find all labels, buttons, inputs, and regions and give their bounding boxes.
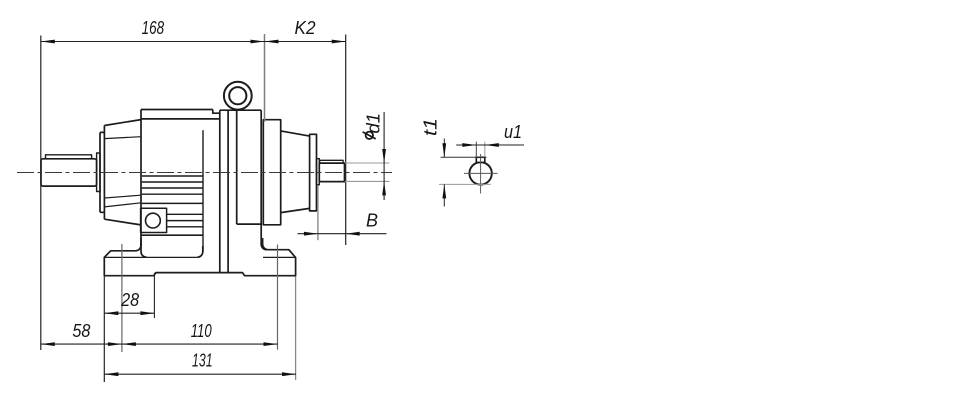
oil plug box: [141, 208, 167, 232]
central block top: [220, 109, 261, 111]
svg-text:K2: K2: [295, 18, 316, 38]
arrow 28 left: [104, 311, 118, 315]
arrow 110 left: [122, 342, 136, 346]
section h centerline: [464, 172, 498, 174]
extension line right bolt center: [277, 245, 279, 350]
output shaft: [319, 163, 344, 182]
dim line 131: [104, 373, 296, 375]
output collar: [317, 159, 320, 185]
arrow 131 left: [104, 372, 118, 376]
extension line base recess: [153, 273, 155, 318]
cone interior line top: [104, 137, 141, 139]
keyway ext right: [484, 142, 486, 158]
pocket fillet right (fins wall to pocket line): [197, 246, 203, 257]
eyebolt ring: [224, 82, 252, 110]
extension line shaft end: [345, 35, 347, 246]
centerline main view: [17, 172, 392, 174]
pocket fillet left (motor wall to pocket line): [141, 244, 147, 257]
fin 2: [142, 181, 203, 183]
fin 1: [142, 175, 203, 177]
t1 dim line bottom: [443, 184, 445, 206]
motor left wall: [140, 110, 142, 246]
central block notch bottom: [237, 223, 262, 225]
extension line base right edge: [295, 277, 297, 381]
dim line B: [298, 233, 387, 235]
motor fins end line: [202, 130, 204, 251]
arrow d1 bottom: [382, 181, 386, 195]
t1 bottom line: [439, 183, 491, 185]
central block inner line: [236, 110, 238, 224]
central pedestal right line: [227, 110, 229, 272]
svg-text:58: 58: [72, 321, 90, 341]
base back edge line right: [263, 256, 296, 258]
label od1 diameter symbol slash: [363, 132, 376, 139]
arrow 58 left: [41, 342, 55, 346]
central block left edge / pedestal: [219, 110, 221, 272]
arrow B right: [346, 232, 360, 236]
cone interior line mid2: [104, 203, 141, 207]
dim line 58: [41, 343, 122, 345]
extension line B left: [317, 186, 319, 240]
dim line K2: [265, 41, 346, 43]
dim line 28: [104, 312, 154, 314]
svg-text:168: 168: [142, 18, 165, 38]
section key: [476, 157, 485, 162]
output cone top edge: [281, 131, 310, 136]
svg-text:110: 110: [191, 321, 212, 341]
central block right edge: [261, 110, 267, 250]
dim line 168: [41, 41, 265, 43]
wire: [41, 82, 345, 276]
extension line 168/K2 boundary: [264, 34, 266, 122]
input shaft: [41, 159, 97, 186]
t1 dim line top: [443, 139, 445, 158]
arrow 28 right: [140, 311, 154, 315]
arrow K2 left: [265, 40, 279, 44]
svg-text:d1: d1: [364, 113, 384, 134]
output bearing plate: [263, 120, 280, 225]
keyway ext left: [475, 142, 477, 158]
arrow d1 top: [382, 149, 386, 163]
u1 dim line: [456, 144, 524, 146]
oil plug circle: [146, 213, 161, 228]
cone interior line mid1: [104, 195, 141, 198]
motor bottom: [141, 234, 203, 236]
dim line d1: [383, 112, 385, 200]
arrow B left: [304, 232, 318, 236]
fin 7: [167, 213, 203, 215]
svg-text:28: 28: [120, 290, 139, 310]
input bearing cap: [100, 126, 104, 220]
input collar: [97, 153, 100, 192]
section v centerline: [480, 154, 482, 194]
svg-text:t1: t1: [421, 118, 441, 136]
t1 top line: [441, 156, 487, 158]
u1 arrow right: [485, 143, 499, 147]
fin 5: [142, 202, 203, 204]
arrow 131 right: [282, 372, 296, 376]
svg-text:u1: u1: [504, 122, 522, 142]
arrow 110 right: [264, 342, 278, 346]
extension line d1 bottom: [345, 180, 390, 182]
section circle shaft: [469, 162, 491, 184]
output cone bottom edge: [281, 208, 310, 212]
input shaft key: [46, 155, 92, 159]
fin 3: [142, 187, 203, 189]
gearbox cone bottom edge: [104, 219, 141, 225]
gearbox cone top edge: [104, 120, 141, 126]
arrow 58 right: [108, 342, 122, 346]
base outline: [104, 238, 295, 276]
fin 4: [142, 193, 203, 195]
fin 8: [167, 220, 203, 222]
arrow 168 left: [41, 40, 55, 44]
dim line 110: [122, 343, 278, 345]
extension line foot left edge: [103, 277, 105, 383]
arrow K2 right: [332, 40, 346, 44]
output shaft key: [320, 160, 343, 163]
svg-text:131: 131: [192, 351, 213, 371]
extension line 58/168 left: [40, 36, 42, 351]
svg-text:B: B: [366, 211, 378, 231]
t1 arrow top: [442, 143, 446, 157]
label od1 diameter symbol circle: [366, 132, 373, 139]
fin 9: [167, 226, 203, 228]
extension line d1 top: [345, 162, 390, 164]
arrow 168 right: [251, 40, 265, 44]
t1 arrow bottom: [442, 184, 446, 198]
u1 arrow left: [462, 143, 476, 147]
motor top slab: [141, 110, 220, 119]
base back edge line left: [105, 256, 198, 258]
extension line left bolt center: [121, 244, 123, 352]
output bearing cap: [310, 134, 317, 211]
